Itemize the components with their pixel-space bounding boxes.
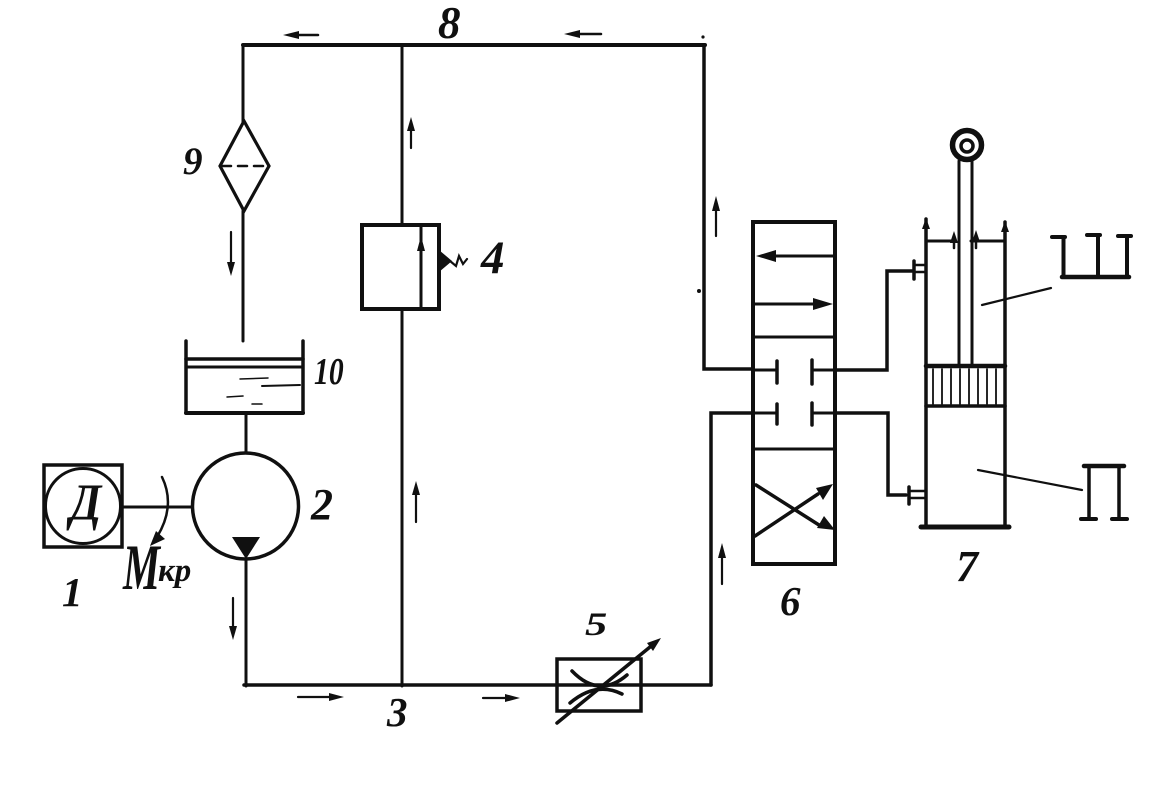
leader line to piston label <box>978 470 1082 490</box>
wire: pump outlet down <box>245 559 248 686</box>
svg-text:М: М <box>122 531 162 604</box>
arrow right on line 3 (first) <box>298 693 344 701</box>
wire: middle branch upper (valve 4 to line 8) <box>401 45 404 225</box>
wire: middle branch lower (valve 4 to line 3) <box>401 309 404 686</box>
wire: valve 6 port B to cylinder rod-end port <box>835 413 906 495</box>
svg-text:2: 2 <box>310 480 333 529</box>
svg-text:9: 9 <box>183 140 203 183</box>
arrow up (right riser lower) <box>718 543 726 584</box>
svg-text:5: 5 <box>585 606 607 642</box>
arrow left on line 8 (second) <box>564 30 601 38</box>
pump P2 (circle) <box>193 453 299 559</box>
valve 6 center position blocked ports (upper row) <box>753 360 835 384</box>
svg-text:8: 8 <box>438 0 461 48</box>
throttle valve 5 (box with arcs) <box>557 659 641 711</box>
valve 6 position I: arrow right <box>754 298 833 310</box>
wire: right riser lower (line 3 up to valve 6 port B) <box>711 413 754 685</box>
wire: left drop from line 8 to filter <box>242 45 245 122</box>
relief valve 4 (box) <box>362 225 439 309</box>
wire: top return line 8 <box>243 43 705 47</box>
ink dot <box>701 35 704 38</box>
svg-text:1: 1 <box>62 569 83 615</box>
rod label Sh <box>1052 235 1131 277</box>
throttle adjust arrow <box>557 638 661 723</box>
rod clevis eye <box>953 131 982 160</box>
valve 6 center position blocked ports (lower row) <box>753 403 835 425</box>
spring of valve 4 <box>439 250 467 272</box>
wire: motor shaft <box>122 506 192 509</box>
cylinder bottom port fitting <box>909 487 925 504</box>
filter F9 (diamond) <box>220 121 269 211</box>
svg-text:кр: кр <box>158 553 191 589</box>
torque label Mkr <box>122 531 191 604</box>
leader line to rod label <box>982 288 1051 305</box>
svg-text:4: 4 <box>480 232 505 284</box>
arrow up (middle branch top) <box>407 117 415 148</box>
wire: tank to pump <box>245 413 248 453</box>
wire: valve 6 port A to cylinder head port <box>835 271 912 370</box>
cylinder 7 body <box>921 218 1009 527</box>
wire: right riser upper (line 8 down to valve 6 port A) <box>704 45 753 369</box>
arrow down (pump outlet) <box>229 598 237 640</box>
svg-text:10: 10 <box>314 352 344 393</box>
piston label P <box>1081 466 1127 519</box>
arrow up (right riser upper) <box>712 196 720 236</box>
wire: bottom pressure line 3 <box>244 683 711 687</box>
motor M1 (square with circle and letter D) <box>44 465 122 547</box>
arrow down (filter outlet) <box>227 232 235 276</box>
valve 6 divider top <box>753 336 835 339</box>
ink dot <box>697 289 701 293</box>
arrow up (middle branch bottom) <box>412 481 420 522</box>
valve 6 divider bottom <box>753 448 835 451</box>
torque arc arrow Mkr <box>150 477 168 546</box>
svg-text:6: 6 <box>780 578 801 624</box>
wire: filter to tank <box>242 211 245 341</box>
svg-text:3: 3 <box>386 689 408 735</box>
tank 10 <box>186 341 303 413</box>
valve 6 position II: crossed arrows <box>755 484 835 536</box>
directional valve 6 (3-position body) <box>753 222 835 564</box>
svg-text:7: 7 <box>956 542 980 591</box>
pump flow triangle <box>232 537 260 559</box>
cylinder rod <box>959 161 972 366</box>
valve 6 position I: arrow left <box>756 250 834 262</box>
cylinder head port fitting <box>914 261 925 279</box>
cylinder piston (hatched) <box>926 366 1005 406</box>
arrow right on line 3 (second) <box>483 694 520 702</box>
arrow left on line 8 (first) <box>283 31 318 39</box>
svg-text:Д: Д <box>66 473 102 531</box>
